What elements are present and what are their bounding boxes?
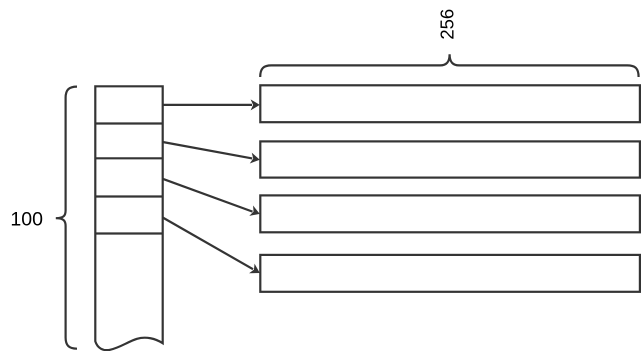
svg-text:256: 256	[437, 9, 458, 40]
svg-text:100: 100	[10, 208, 43, 230]
